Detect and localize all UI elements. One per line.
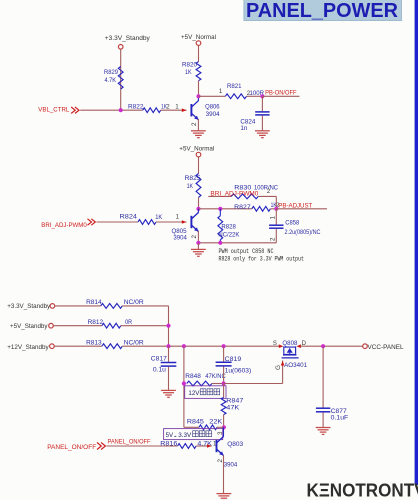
wire R816 to Q803 base <box>196 445 212 447</box>
svg-text:1K: 1K <box>155 214 162 221</box>
wire Q803 collector <box>223 427 225 436</box>
svg-text:Q806: Q806 <box>205 104 220 111</box>
wire vertical x=183.9 down <box>183 346 185 427</box>
wire to R813 <box>54 345 102 347</box>
resistor R821 <box>225 94 246 99</box>
svg-text:R825: R825 <box>185 175 201 182</box>
wire C819 to gate node <box>223 367 225 384</box>
wire Q806 collector <box>197 96 199 101</box>
svg-text:R820: R820 <box>182 62 197 69</box>
resistor R830 <box>231 194 258 199</box>
svg-text:0.1uF: 0.1uF <box>331 415 349 422</box>
svg-text:4.7K: 4.7K <box>105 77 117 84</box>
svg-text:2: 2 <box>270 237 277 241</box>
node PB-ON/OFF junction + net wire <box>260 94 264 98</box>
svg-text:1: 1 <box>270 216 277 220</box>
wire R827 to PB-ADJUST node <box>270 208 276 210</box>
svg-text:R813: R813 <box>86 339 102 346</box>
wire port to R824 <box>97 221 139 223</box>
wire vertical x=168.5 <box>168 306 170 346</box>
resistor R847 <box>221 397 226 414</box>
svg-text:+5V_Normal: +5V_Normal <box>179 145 214 152</box>
svg-text:Q808: Q808 <box>282 340 297 347</box>
svg-text:NC/22K: NC/22K <box>218 232 239 239</box>
wire MOSFET drain to VCC-PANEL <box>300 345 363 347</box>
svg-text:R847: R847 <box>226 397 243 404</box>
svg-text:R814: R814 <box>86 299 102 306</box>
svg-text:C858: C858 <box>285 220 299 227</box>
node R828 top junction <box>218 207 222 211</box>
wire: +3.3V stem down to VBL node <box>120 49 122 110</box>
capacitor C877 <box>316 408 330 412</box>
svg-text:R822: R822 <box>128 103 144 110</box>
capacitor C877 long stem <box>322 346 324 407</box>
svg-text:+3.3V_Standby: +3.3V_Standby <box>7 303 51 310</box>
svg-text:R828: R828 <box>221 224 236 231</box>
svg-text:1: 1 <box>175 103 179 110</box>
wire R821 to PB node <box>247 95 263 97</box>
node Q806 collector junction <box>196 94 200 98</box>
capacitor C817 stem <box>168 346 170 362</box>
resistor R824 <box>138 220 156 225</box>
svg-text:G: G <box>275 365 282 370</box>
svg-text:C817: C817 <box>151 355 167 362</box>
callout box 5V/3.3V <box>164 429 223 440</box>
wire Q806 emitter to ground <box>197 119 199 131</box>
svg-text:+5V_Standby: +5V_Standby <box>10 323 48 330</box>
wire gate node down to R847 <box>223 384 225 398</box>
resistor R848 <box>187 381 212 386</box>
ground (Q803 emitter, clipped) <box>217 494 232 500</box>
svg-text:2: 2 <box>267 188 271 195</box>
svg-text:PB-ON/OFF: PB-ON/OFF <box>265 90 297 97</box>
ground (C877) <box>316 428 331 435</box>
svg-text:0R: 0R <box>125 319 132 326</box>
svg-text:1: 1 <box>176 214 180 221</box>
node C817 branch junction <box>166 344 170 348</box>
capacitor C858 stem <box>275 209 277 225</box>
resistor R816 <box>178 444 197 449</box>
wire main 12V rail to MOSFET source <box>122 345 279 347</box>
ground (C817) <box>161 390 176 397</box>
wire to R812 <box>53 325 102 327</box>
transistor Q803 (2N3904 NPN) <box>217 437 224 456</box>
resistor R828 <box>218 216 223 240</box>
resistor R828 stubs <box>219 209 221 216</box>
net BRI_ADJ-PWM0 wire with R830 <box>208 195 231 197</box>
node MOSFET gate junction <box>222 381 226 385</box>
svg-text:PWM output C858 NC: PWM output C858 NC <box>219 248 274 255</box>
wire C858 bottom to gnd rail <box>275 229 277 243</box>
ground (Q805/C858 rail) <box>191 249 206 256</box>
svg-text:R821: R821 <box>227 83 242 90</box>
resistor R829 <box>118 67 123 90</box>
svg-text:3904: 3904 <box>224 461 238 468</box>
ground (C824) <box>255 131 270 138</box>
svg-text:+12V_Standby: +12V_Standby <box>7 344 49 351</box>
wire R814 to vertical <box>122 305 168 307</box>
svg-text:VCC-PANEL: VCC-PANEL <box>368 344 404 351</box>
svg-text:NC/0R: NC/0R <box>124 299 144 306</box>
svg-text:R824: R824 <box>120 214 138 221</box>
svg-text:PANEL_ON/OFF: PANEL_ON/OFF <box>47 444 96 451</box>
svg-text:BRI_ADJ-PWM0: BRI_ADJ-PWM0 <box>210 190 258 197</box>
wire port to R816 <box>106 445 177 447</box>
node Q803 collector junction <box>222 425 226 429</box>
svg-text:2.2u(0805)/NC: 2.2u(0805)/NC <box>285 229 321 236</box>
svg-text:VBL_CTRL: VBL_CTRL <box>38 107 69 114</box>
node emitter/ground junction <box>196 241 200 245</box>
wire C877 to ground <box>322 412 324 427</box>
svg-text:1u(0603): 1u(0603) <box>225 368 252 375</box>
svg-text:22K: 22K <box>209 419 223 426</box>
resistor R827 <box>252 206 271 211</box>
svg-text:12V: 12V <box>188 390 200 397</box>
node PB-ADJUST junction + net wire <box>274 207 278 211</box>
wire R825 to collector node <box>198 197 200 208</box>
wire middle ground rail <box>198 242 276 244</box>
ground (Q806 emitter) <box>191 131 206 138</box>
wire VBL_CTRL to R822 <box>80 109 143 111</box>
wire R848 to gate node <box>212 383 224 385</box>
wire collector node to R821 <box>199 95 226 97</box>
svg-text:+5V_Normal: +5V_Normal <box>181 34 216 41</box>
wire Q805 emitter down <box>197 231 199 243</box>
svg-text:C819: C819 <box>225 356 242 363</box>
svg-text:47K: 47K <box>226 404 240 411</box>
power VCC-PANEL terminal <box>363 344 368 349</box>
node C819 branch junction <box>222 344 226 348</box>
transistor Q805 (2N3904 NPN) <box>191 213 198 232</box>
wire +5V to R820 <box>198 45 200 61</box>
resistor R820 <box>196 62 201 81</box>
svg-text:R827: R827 <box>234 204 251 211</box>
svg-text:3.3V: 3.3V <box>178 432 192 439</box>
node drain junction <box>321 344 325 348</box>
wire R847 to Q803 collector node <box>223 415 225 428</box>
svg-text:S: S <box>273 340 278 347</box>
capacitor C858 <box>269 225 283 228</box>
node Q805 collector junction <box>196 207 200 211</box>
wire +5V to R825 <box>198 157 200 174</box>
svg-text:R816: R816 <box>160 441 177 448</box>
svg-text:R845: R845 <box>187 419 204 426</box>
svg-text:NC/0R: NC/0R <box>124 339 144 346</box>
wire gnd stem <box>197 243 199 249</box>
svg-text:R829: R829 <box>104 69 118 76</box>
svg-text:BRI_ADJ-PWM0: BRI_ADJ-PWM0 <box>41 222 87 229</box>
svg-text:1: 1 <box>219 88 223 95</box>
capacitor C817 <box>161 363 177 367</box>
wire C824 to ground <box>261 116 263 131</box>
svg-text:5V: 5V <box>166 432 174 439</box>
wire Q803 emitter to ground <box>223 455 225 493</box>
transistor Q806 (2N3904 NPN) <box>191 101 198 120</box>
svg-text:R828 only for 3.3V PWM output: R828 only for 3.3V PWM output <box>219 256 305 263</box>
svg-text:PANEL_ON/OFF: PANEL_ON/OFF <box>108 439 151 446</box>
wire R824 to Q805 base <box>156 221 187 223</box>
capacitor C819 <box>216 362 232 366</box>
gate wire from node to MOSFET G <box>224 383 283 385</box>
capacitor C819 stem <box>223 346 225 361</box>
svg-text:2: 2 <box>191 235 198 239</box>
svg-text:47K/NC: 47K/NC <box>205 373 226 380</box>
node R828 bottom junction <box>218 241 222 245</box>
resistor R813 <box>102 344 122 349</box>
capacitor C824 <box>255 112 269 115</box>
resistor R814 <box>101 304 123 309</box>
wire R820 to collector node <box>198 81 200 97</box>
svg-text:1K: 1K <box>185 69 192 76</box>
resistor R825 <box>196 174 201 198</box>
svg-text:1n: 1n <box>240 125 247 132</box>
svg-text:3904: 3904 <box>206 111 220 118</box>
svg-text:2: 2 <box>166 103 170 110</box>
wire R845 leg <box>184 426 199 428</box>
svg-text:+3.3V_Standby: +3.3V_Standby <box>105 35 151 42</box>
node R848 left junction <box>182 381 186 385</box>
wire C824 stem <box>261 96 263 111</box>
wire collector rail to R827 <box>199 208 252 210</box>
svg-text:0.1u: 0.1u <box>153 367 166 374</box>
sheet border (right edge) <box>415 0 418 485</box>
wire R812 to junction <box>121 325 169 327</box>
svg-text:2: 2 <box>191 122 198 126</box>
svg-text:R812: R812 <box>88 319 104 326</box>
resistor R845 <box>199 425 217 430</box>
wire C817 to ground <box>168 367 170 391</box>
svg-text:3904: 3904 <box>173 235 187 242</box>
svg-text:Q803: Q803 <box>227 441 243 448</box>
node R848 branch junction <box>182 344 186 348</box>
wire R830 line down to junction <box>275 196 277 208</box>
svg-text:PANEL_POWER: PANEL_POWER <box>246 0 399 22</box>
svg-text:1K: 1K <box>187 183 194 190</box>
resistor R812 <box>102 323 121 328</box>
title block PANEL_POWER <box>244 0 402 21</box>
svg-text:PB-ADJUST: PB-ADJUST <box>278 202 312 209</box>
svg-text:R848: R848 <box>185 373 201 380</box>
wire to R814 <box>55 305 101 307</box>
svg-text:AO3401: AO3401 <box>284 362 307 369</box>
wire R822 to Q806 base <box>161 109 187 111</box>
wire Q805 collector <box>197 209 199 213</box>
svg-text:KΞNOTRONTV: KΞNOTRONTV <box>307 480 418 500</box>
callout box 12V <box>185 386 226 399</box>
resistor R822 <box>143 108 161 113</box>
